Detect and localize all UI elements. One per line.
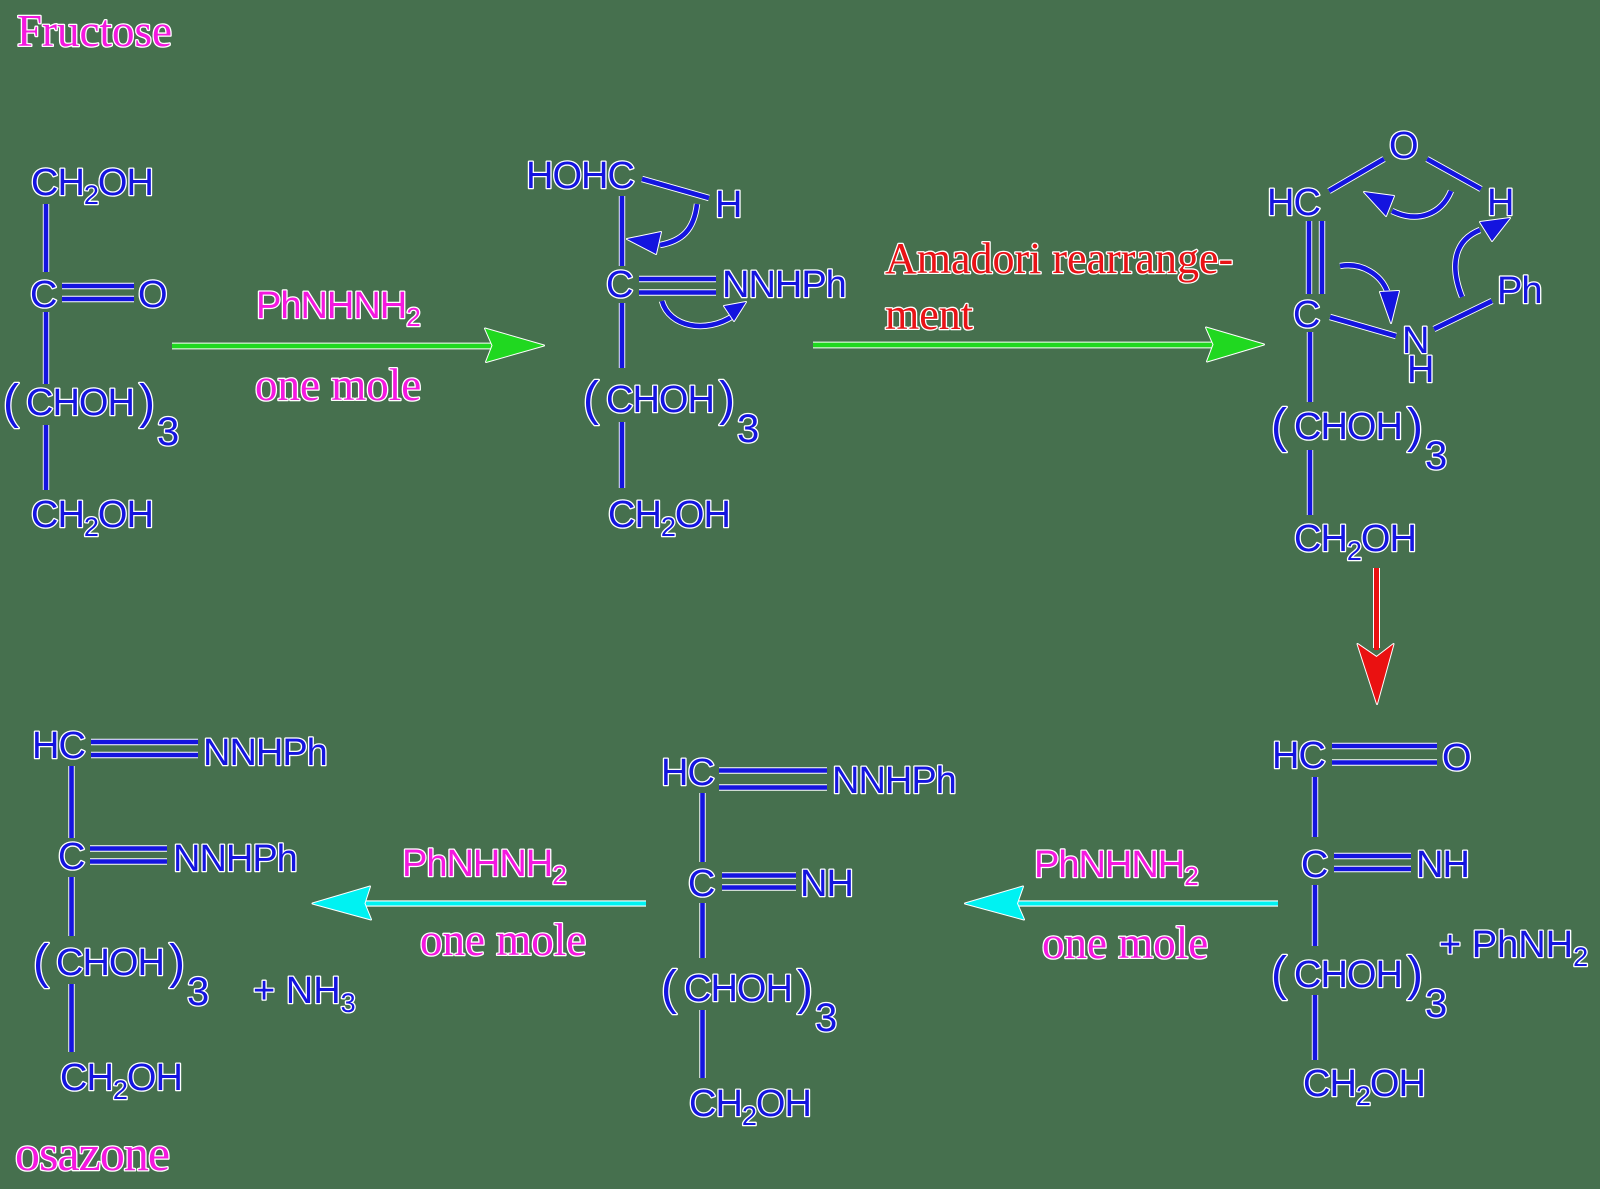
white halo pass for bonds (46, 159, 1492, 1078)
blue pass for bonds (46, 159, 1492, 1078)
S3 (CHOH)3 (1271, 400, 1447, 478)
S6 CH2OH (60, 1057, 182, 1105)
S5 (CHOH)3 (661, 962, 837, 1040)
svg-text:O: O (138, 274, 167, 316)
svg-text:Ph: Ph (1497, 270, 1541, 312)
svg-text:C: C (30, 274, 56, 316)
svg-text:one mole: one mole (420, 915, 586, 965)
svg-text:C: C (58, 836, 84, 878)
svg-text:+ NH3: + NH3 (253, 970, 356, 1018)
S5 CH2OH (689, 1083, 811, 1131)
green arrow 1 line (172, 343, 497, 350)
S4 HC (1272, 735, 1325, 777)
svg-text:Fructose: Fructose (17, 6, 172, 56)
S4 (CHOH)3 (1271, 948, 1447, 1026)
S5 HC (661, 752, 714, 794)
S2 CH2OH (608, 494, 730, 542)
blue curved-arrow head S3 middle (1380, 291, 1399, 323)
svg-text:PhNHNH2: PhNHNH2 (1034, 844, 1198, 891)
svg-text:C: C (688, 863, 714, 905)
blue curved-arrow head S2 left (627, 232, 661, 254)
svg-text:PhNHNH2: PhNHNH2 (402, 843, 566, 890)
red arrow line (1373, 568, 1380, 648)
svg-text:PhNHNH2: PhNHNH2 (256, 285, 420, 332)
S6 (CHOH)3 (33, 936, 209, 1014)
svg-text:H: H (715, 184, 741, 226)
svg-text:HOHC: HOHC (526, 155, 634, 197)
svg-text:C: C (1301, 844, 1327, 886)
svg-text:+ PhNH2: + PhNH2 (1439, 924, 1588, 972)
svg-text:Amadori rearrange-: Amadori rearrange- (885, 234, 1233, 283)
S1 CH2OH top (31, 162, 153, 210)
svg-text:ment: ment (885, 290, 973, 339)
svg-text:O: O (1389, 125, 1418, 167)
green arrow 2 head (1206, 328, 1264, 362)
green arrow 2 line (813, 342, 1213, 349)
red arrow head (1358, 644, 1394, 704)
S6 HC (32, 725, 85, 767)
cyan arrow right line (1017, 900, 1278, 906)
blue curved-arrow head S3 top (1364, 192, 1394, 216)
svg-text:C: C (1293, 294, 1319, 336)
svg-text:C: C (606, 264, 632, 306)
svg-text:H: H (1407, 349, 1433, 391)
blue curved-arrow head S2 right (724, 302, 746, 321)
S3 CH2OH (1294, 518, 1416, 566)
svg-text:O: O (1442, 737, 1471, 779)
svg-text:NH: NH (800, 863, 853, 905)
blue curved-arrow head S3 right (1480, 218, 1510, 241)
svg-text:NH: NH (1416, 844, 1469, 886)
S6 NNHPh bottom (173, 838, 297, 880)
cyan arrow left head (313, 887, 372, 920)
S2 NNHPh (722, 264, 846, 306)
S3 HC (1267, 182, 1320, 224)
svg-text:one mole: one mole (1042, 918, 1208, 968)
S6 NNHPh top (203, 732, 327, 774)
cyan arrow right head (965, 887, 1024, 920)
svg-text:H: H (1487, 182, 1513, 224)
S5 NNHPh (832, 760, 956, 802)
svg-text:one mole: one mole (255, 360, 421, 410)
S4 CH2OH (1303, 1063, 1425, 1111)
svg-text:osazone: osazone (15, 1125, 169, 1181)
cyan arrow left line (364, 900, 646, 906)
S1 (CHOH)3 (3, 376, 179, 454)
S2 (CHOH)3 (583, 373, 759, 451)
S1 CH2OH bottom (31, 494, 153, 542)
green arrow 1 head (485, 329, 544, 363)
